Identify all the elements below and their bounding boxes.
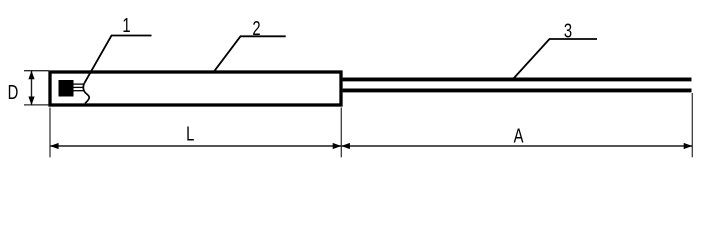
svg-text:1: 1 — [122, 14, 130, 37]
dimension D arrow line — [31, 71, 33, 106]
dimension L line — [50, 145, 341, 147]
svg-text:2: 2 — [252, 17, 260, 40]
sensor lead wire middle — [74, 86, 84, 88]
dimension L arrowhead left — [50, 143, 59, 149]
dimension A arrowhead left — [341, 143, 350, 149]
dimension D extension line bottom — [24, 104, 49, 106]
sensing element chip (item 1) — [59, 80, 74, 97]
extension line left of L — [49, 108, 51, 158]
svg-text:D: D — [8, 81, 19, 104]
cable conductor bottom line — [343, 88, 692, 92]
svg-text:3: 3 — [564, 19, 572, 42]
svg-text:L: L — [186, 122, 194, 145]
leader line for label 1 — [84, 36, 151, 84]
dimension D arrowhead up — [28, 71, 34, 80]
svg-text:A: A — [514, 124, 524, 147]
cable conductor top line (item 3) — [343, 77, 692, 81]
extension line between L and A — [340, 108, 342, 158]
dimension A arrowhead right — [684, 143, 693, 149]
dimension A line — [341, 145, 692, 147]
sensor lead wire top — [74, 83, 84, 85]
sensor lead wire bottom — [74, 90, 84, 92]
dimension D arrowhead down — [28, 97, 34, 106]
dimension D extension line top — [24, 70, 49, 72]
leader line for label 3 — [514, 39, 598, 79]
probe sheath body (item 2) — [50, 72, 341, 105]
extension line right of A — [691, 93, 693, 157]
dimension L arrowhead right — [333, 143, 342, 149]
leader line for label 2 — [215, 36, 286, 71]
potting boundary curve — [83, 83, 89, 103]
